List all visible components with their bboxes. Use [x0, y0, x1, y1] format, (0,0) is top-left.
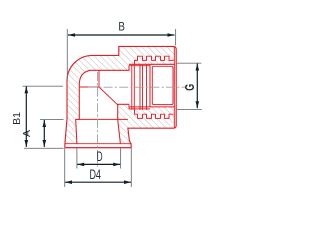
dimension G [177, 62, 202, 64]
inner face line of right flange [173, 47, 175, 128]
serration top [135, 56, 174, 65]
serration bottom [135, 110, 174, 119]
right port centerline [88, 86, 185, 88]
svg-text:B: B [118, 20, 125, 34]
svg-text:B1: B1 [11, 112, 23, 125]
hatched cross-section fill [65, 46, 175, 147]
sleeve step lines [129, 65, 150, 67]
socket shoulder line [76, 118, 128, 120]
thread bore: outer wall + inner rectangle [129, 64, 175, 107]
sleeve wall vertical pairs [131, 65, 133, 110]
svg-text:D: D [97, 148, 103, 164]
cavity outline: bore + thread + socket [76, 66, 129, 144]
dimension B1 [23, 85, 64, 87]
svg-text:D4: D4 [89, 166, 101, 182]
socket bottom face lines [65, 143, 131, 145]
interior corner edges of bore [79, 86, 99, 88]
vertical leg centerline [97, 72, 99, 167]
outer profile outline [65, 46, 176, 147]
dimension A [40, 119, 64, 121]
dimension B [66, 29, 68, 80]
technical drawing: 90° female-threaded elbow fitting cross-section [0, 0, 218, 195]
svg-text:G: G [182, 84, 197, 91]
svg-text:A: A [21, 130, 33, 137]
dimension D4 [64, 148, 66, 187]
dimension D [76, 148, 78, 168]
